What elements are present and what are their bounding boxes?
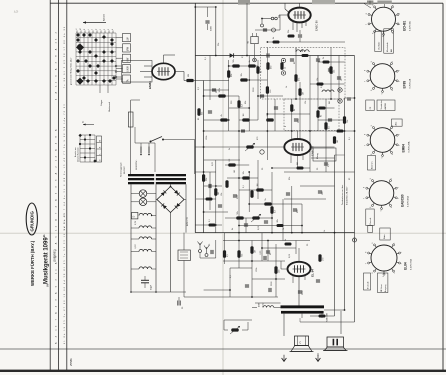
resistor R3 xyxy=(266,62,272,70)
value label v21 xyxy=(283,228,285,230)
value label v31 xyxy=(349,177,351,180)
value label v9 xyxy=(206,136,208,140)
svg-text:2M: 2M xyxy=(297,162,299,165)
capacitor C34 xyxy=(298,30,302,42)
terminal node T1 xyxy=(261,19,264,28)
socket EF89 diagram xyxy=(365,61,401,94)
wire V x239 xyxy=(238,96,240,160)
junction dots AF xyxy=(238,171,303,233)
svg-text:7: 7 xyxy=(365,145,367,146)
svg-text:25k: 25k xyxy=(289,177,291,180)
capacitor C23 xyxy=(260,250,266,260)
aux table top arrow xyxy=(83,121,95,126)
socket EABC80 label xyxy=(401,194,410,207)
resistor R41 xyxy=(285,239,292,246)
svg-text:C: C xyxy=(299,341,301,345)
speaker LS2 cone xyxy=(323,347,348,351)
socket EL84 tag 2 xyxy=(378,273,388,293)
wire H y84 xyxy=(310,83,345,85)
resistor R32 xyxy=(264,198,272,205)
resistor R13 xyxy=(227,70,233,78)
sheet number text xyxy=(69,358,73,366)
wire V x331 xyxy=(330,48,332,100)
triode pin wires xyxy=(291,131,303,168)
resistor R46 xyxy=(273,37,280,44)
EM84 pin stubs xyxy=(115,65,121,78)
EM84 label xyxy=(148,81,152,89)
capacitor C17 xyxy=(218,205,222,207)
value label v12 xyxy=(285,125,287,127)
svg-text:4: 4 xyxy=(392,154,394,155)
socket EF89 tag 1 xyxy=(366,100,374,111)
value label v30 xyxy=(329,101,331,104)
svg-text:8: 8 xyxy=(366,13,368,14)
svg-text:4: 4 xyxy=(112,29,114,30)
wire H y322 xyxy=(300,318,355,322)
bridge diode D4 xyxy=(161,191,167,197)
wire H y290 xyxy=(204,289,230,291)
EABC80 tube envelope xyxy=(288,8,310,23)
hum pot box xyxy=(178,250,190,261)
svg-text:7: 7 xyxy=(364,198,366,199)
plug riser wires xyxy=(135,127,155,172)
capacitor C8 xyxy=(260,95,264,97)
GRUNDIG logo oval xyxy=(26,203,37,235)
svg-text:8: 8 xyxy=(364,187,366,188)
capacitor C31 xyxy=(244,224,248,226)
svg-text:Zeiger: Zeiger xyxy=(100,100,103,106)
EL84 label xyxy=(311,269,315,277)
output transformer secondary bar xyxy=(281,311,324,314)
svg-text:1: 1 xyxy=(394,243,396,244)
horizontal fold crease xyxy=(0,232,446,234)
svg-text:Tonabnehmer nur über: Tonabnehmer nur über xyxy=(342,184,344,205)
svg-text:30k: 30k xyxy=(241,73,243,76)
svg-text:Abstimm: Abstimm xyxy=(371,161,374,169)
svg-text:7: 7 xyxy=(366,24,368,25)
heater winding w3 xyxy=(131,237,156,239)
value label v26 xyxy=(289,253,291,258)
svg-text:GRUNDIG: GRUNDIG xyxy=(29,211,34,232)
svg-text:Ansicht von: Ansicht von xyxy=(74,147,77,157)
wire V x335 xyxy=(334,155,336,316)
EM84 grid wires xyxy=(140,66,152,77)
aerial symbol A1 xyxy=(198,242,203,253)
transformer code text xyxy=(327,312,329,322)
svg-text:6: 6 xyxy=(372,33,374,34)
left margin rule 2 xyxy=(58,0,60,370)
value label v22 xyxy=(209,243,211,246)
resistor R29 xyxy=(228,158,236,167)
junction dots AF2 xyxy=(229,240,277,298)
wire H y303 xyxy=(255,302,281,304)
bridge side wires xyxy=(156,184,186,232)
capacitor C12 xyxy=(328,119,332,121)
svg-text:10k: 10k xyxy=(243,171,245,174)
svg-text:6k: 6k xyxy=(273,37,275,39)
mains fuse F1 xyxy=(128,112,133,127)
svg-text:Demod.: Demod. xyxy=(370,217,372,224)
svg-text:8: 8 xyxy=(365,70,367,71)
svg-text:Antrieb: Antrieb xyxy=(103,13,106,21)
socket EM84 label xyxy=(402,141,411,152)
resistor R20 xyxy=(324,122,330,130)
svg-text:3: 3 xyxy=(108,29,110,30)
svg-text:1M: 1M xyxy=(218,192,220,195)
left margin rule 3 xyxy=(66,0,68,370)
capacitor C9 xyxy=(274,107,278,109)
switch wire xyxy=(163,140,195,175)
wire H y120b xyxy=(318,119,345,121)
resistor R52 xyxy=(288,30,295,38)
capacitor C25 xyxy=(269,288,271,292)
svg-text:2M: 2M xyxy=(329,101,331,104)
svg-text:6: 6 xyxy=(371,90,373,91)
vertical wire W3 xyxy=(246,3,248,56)
wire V x224c xyxy=(224,233,226,264)
capacitor C26 xyxy=(298,290,304,295)
socket EL84 top tag 2 xyxy=(380,228,390,240)
wire aerial xyxy=(200,240,216,258)
svg-text:EM84: EM84 xyxy=(148,81,152,89)
value label v23 xyxy=(230,274,232,278)
svg-text:6,3V: 6,3V xyxy=(135,220,137,225)
svg-text:1M: 1M xyxy=(255,250,257,253)
svg-text:Skalenseil: Skalenseil xyxy=(109,102,111,112)
svg-text:50µF: 50µF xyxy=(151,284,153,290)
resistor R14 xyxy=(237,100,243,108)
EABC80 triode label xyxy=(311,145,315,156)
wire V x239c xyxy=(238,233,240,268)
wire V x310 xyxy=(309,56,311,173)
wire V x229 xyxy=(228,60,230,131)
svg-text:8: 8 xyxy=(365,134,367,135)
socket ECH81 diagram xyxy=(366,5,401,38)
resistor R35 xyxy=(250,190,253,198)
wire H y96 xyxy=(204,95,283,97)
junction dots volume xyxy=(203,171,217,226)
socket ECH81 top tags xyxy=(367,1,392,5)
heater winding w2 xyxy=(131,220,156,228)
capacitor C7 xyxy=(212,89,218,93)
fuse wire bottom xyxy=(130,127,132,174)
switch chart wafer labels xyxy=(116,34,131,84)
resistor R25 xyxy=(202,174,208,182)
wire V x355 xyxy=(354,56,356,323)
resistor R50 xyxy=(317,78,324,86)
svg-text:100k: 100k xyxy=(206,136,208,140)
coil L1 xyxy=(296,48,309,52)
value label v4 xyxy=(253,87,255,92)
wire V x283 xyxy=(282,199,284,241)
vertical fold crease xyxy=(222,0,224,375)
svg-text:2: 2 xyxy=(399,13,401,14)
filter cap C29 xyxy=(178,297,184,309)
wire H y114 xyxy=(267,113,310,115)
value label v27 xyxy=(307,243,309,246)
feedback wire xyxy=(310,315,335,317)
svg-text:D: D xyxy=(133,216,136,218)
wire H y225 xyxy=(195,224,222,226)
svg-text:gezeichnete Stellg. Taste „Aus: gezeichnete Stellg. Taste „Aus“ xyxy=(70,57,73,85)
svg-text:A 4 13 7 A 4 9 A 6 3 11 A 8 2: A 4 13 7 A 4 9 A 6 3 11 A 8 2 A 5 12 A 7… xyxy=(55,127,58,344)
wire V x272 xyxy=(271,172,273,233)
svg-text:7: 7 xyxy=(366,263,368,264)
wire V x292b xyxy=(291,186,293,233)
svg-text:5k: 5k xyxy=(229,148,231,150)
rectifier label xyxy=(187,216,189,226)
capacitor C19 xyxy=(264,221,268,223)
screen rail vertical xyxy=(215,7,217,56)
svg-text:41 8b 19 55 3c 27 90 12 66 4d: 41 8b 19 55 3c 27 90 12 66 4d 38 81 25 7… xyxy=(64,212,66,344)
wire V x216b xyxy=(215,160,217,233)
wire EM84 anode xyxy=(175,72,186,81)
junction dots extra xyxy=(203,41,356,311)
svg-text:Endstufe: Endstufe xyxy=(367,282,370,289)
capacitor C27 xyxy=(316,280,320,282)
svg-text:6,3V: 6,3V xyxy=(135,244,137,249)
svg-text:3k: 3k xyxy=(323,57,325,59)
capacitor C10 xyxy=(294,118,300,123)
svg-text:2: 2 xyxy=(398,70,400,71)
svg-text:5k: 5k xyxy=(265,198,267,200)
wire H y178 xyxy=(227,177,258,179)
capacitor C22 xyxy=(211,250,213,254)
value label v33 xyxy=(198,117,200,120)
resistor R15 xyxy=(256,66,262,74)
svg-text:4: 4 xyxy=(391,207,393,208)
heater return wire xyxy=(130,291,186,293)
terminal T5 xyxy=(353,238,357,242)
wire H y165 xyxy=(225,164,249,166)
svg-text:2k: 2k xyxy=(232,228,234,230)
resistor R17 xyxy=(290,104,296,112)
model number text xyxy=(53,249,57,262)
svg-text:1: 1 xyxy=(392,61,394,62)
wire H y212 xyxy=(204,211,228,213)
potentiometer P1 xyxy=(245,143,255,151)
svg-text:6,3V/0,28A: 6,3V/0,28A xyxy=(408,141,411,152)
value label v20 xyxy=(258,225,260,230)
svg-text:B250 C75: B250 C75 xyxy=(187,216,189,226)
trimmer T2 xyxy=(260,150,264,154)
wire V x339 xyxy=(338,56,340,100)
svg-text:8k: 8k xyxy=(321,115,323,117)
speaker LS2 capacitor xyxy=(327,337,344,347)
wire H y268 xyxy=(230,267,252,269)
svg-text:5: 5 xyxy=(383,276,385,277)
value label v32 xyxy=(198,86,200,90)
capacitor C11 xyxy=(241,130,245,132)
value label v14 xyxy=(234,170,236,173)
wire V x239b xyxy=(238,160,240,233)
bridge diode D2 xyxy=(175,203,181,209)
EABC80 pin wires xyxy=(293,21,306,32)
value label v34 xyxy=(245,101,247,104)
aux switch table marks xyxy=(79,134,97,163)
svg-text:9: 9 xyxy=(370,178,372,179)
value label v18 xyxy=(243,184,245,188)
svg-text:EL84: EL84 xyxy=(404,262,408,270)
switch chart contact marks xyxy=(76,33,116,85)
value label v2 xyxy=(218,43,220,46)
svg-text:2558b: 2558b xyxy=(69,358,73,366)
value label v35 xyxy=(317,167,319,170)
resistor R9 xyxy=(240,73,248,81)
svg-text:9: 9 xyxy=(372,243,374,244)
svg-text:2M: 2M xyxy=(302,49,304,52)
capacitor C6 xyxy=(328,69,334,74)
GRUNDIG logo text xyxy=(29,211,34,232)
resistor R39 xyxy=(250,246,256,254)
resistor R43 xyxy=(319,311,326,318)
coil L2 xyxy=(322,90,334,92)
junction dots mixer xyxy=(203,65,311,148)
ground arrow G2 xyxy=(316,355,321,362)
resistor R37 xyxy=(223,250,229,258)
capacitor C30 xyxy=(337,77,343,81)
chart lower leader lines xyxy=(100,85,108,93)
svg-text:Tastenaggregat: Tastenaggregat xyxy=(120,162,123,177)
EABC80 grid lead xyxy=(279,15,288,18)
svg-text:9: 9 xyxy=(372,5,374,6)
right border line xyxy=(442,3,444,370)
svg-text:1k: 1k xyxy=(285,67,287,69)
pilot lamp LP1 xyxy=(131,190,156,198)
svg-text:7c 24 91 5 63 38 17 80 4b 26: 7c 24 91 5 63 38 17 80 4b 26 xyxy=(64,26,66,88)
keyboard unit caption xyxy=(120,162,126,177)
resistor R12 xyxy=(266,112,274,121)
svg-text:EABC80: EABC80 xyxy=(311,145,315,156)
socket EM84 diagram xyxy=(365,125,401,158)
svg-text:6: 6 xyxy=(371,154,373,155)
wire H y62 xyxy=(318,61,345,63)
wire H y204 xyxy=(249,203,302,205)
svg-text:EABC80: EABC80 xyxy=(401,194,405,207)
potentiometer P2 xyxy=(251,214,261,222)
wire H y218 xyxy=(225,217,272,219)
wire V x204 xyxy=(203,81,205,233)
wire H y186c xyxy=(204,185,222,187)
socket EL84 tag 1 xyxy=(364,273,371,290)
value label v13 xyxy=(212,161,214,166)
svg-text:5k: 5k xyxy=(261,71,263,73)
aux switch table grid xyxy=(80,135,95,162)
transformer tap wires xyxy=(284,310,345,336)
socket ECH81 label xyxy=(403,20,412,31)
bridge bottom wire xyxy=(170,213,172,293)
resistor R47 xyxy=(297,162,304,170)
svg-text:1k: 1k xyxy=(285,239,287,241)
wire V x249 xyxy=(248,56,250,132)
svg-text:60k: 60k xyxy=(202,112,204,115)
socket EF89 label xyxy=(403,78,412,88)
trim terminal A xyxy=(281,58,285,62)
value label v17 xyxy=(221,193,223,196)
value label v15 xyxy=(262,167,264,170)
pilot lamp LP2 xyxy=(131,198,156,206)
svg-text:100k: 100k xyxy=(219,88,221,92)
mains switch S1 xyxy=(150,137,165,143)
svg-text:4: 4 xyxy=(392,90,394,91)
wire H y172 xyxy=(284,171,355,173)
svg-text:EABC 80: EABC 80 xyxy=(315,20,319,31)
svg-text:1M: 1M xyxy=(257,183,259,186)
svg-text:30k: 30k xyxy=(206,178,208,181)
svg-text:1k: 1k xyxy=(324,230,326,232)
drive arrow line xyxy=(83,21,106,23)
svg-text:15k: 15k xyxy=(317,78,319,81)
wire H y158 xyxy=(311,157,335,159)
resistor R30 xyxy=(242,171,250,179)
svg-text:Anz.: Anz. xyxy=(395,121,398,126)
svg-text:EM84: EM84 xyxy=(402,144,406,153)
wire H y147 xyxy=(195,146,284,148)
EL84 grid lead xyxy=(281,261,288,269)
speaker wires xyxy=(318,347,341,356)
resistor R34 xyxy=(225,180,228,188)
output coupling wires xyxy=(335,97,356,155)
wire V x275 xyxy=(274,99,276,131)
wire H y199c xyxy=(196,198,216,200)
svg-text:„Musikgerät 1099“: „Musikgerät 1099“ xyxy=(44,234,50,287)
svg-text:1M: 1M xyxy=(303,92,305,95)
svg-text:1M: 1M xyxy=(188,74,190,77)
svg-text:1k: 1k xyxy=(249,60,251,62)
EABC80 triode envelope xyxy=(284,139,310,155)
resistor R36 xyxy=(270,206,276,214)
socket EF89 tag 2 xyxy=(377,100,395,111)
pencil note xyxy=(13,9,18,14)
svg-text:9: 9 xyxy=(371,125,373,126)
svg-text:(1088/561): (1088/561) xyxy=(53,249,57,262)
resistor R49 xyxy=(323,57,330,64)
svg-text:3: 3 xyxy=(401,263,403,264)
wire H y248 xyxy=(262,247,296,249)
svg-text:6,3V/0,3A: 6,3V/0,3A xyxy=(409,21,412,31)
wire V x258b xyxy=(257,160,259,199)
resistor R4 xyxy=(280,62,286,70)
terminal T4 xyxy=(338,99,342,103)
socket EABC80 tag 1 xyxy=(366,209,374,226)
wire H y66 xyxy=(229,65,258,67)
trim terminal B xyxy=(281,71,285,75)
capacitor C20 xyxy=(293,209,299,213)
svg-text:2: 2 xyxy=(397,187,399,188)
svg-text:10k: 10k xyxy=(221,193,223,196)
svg-text:70k: 70k xyxy=(347,120,349,123)
socket ECH81 lead xyxy=(364,1,385,9)
wire H y186b xyxy=(300,185,335,187)
resistor R11 xyxy=(242,113,250,121)
power transformer core bar 2 xyxy=(128,178,186,180)
resistor R44 xyxy=(294,74,300,82)
pushbutton switch chart grid xyxy=(76,33,116,85)
main bus y232 xyxy=(195,232,354,234)
resistor R42 xyxy=(318,254,324,262)
wire H y168 xyxy=(272,167,310,169)
wire H y261 xyxy=(223,260,285,262)
resistor R6 xyxy=(218,88,226,97)
EL84 pin wires xyxy=(293,248,305,306)
svg-text:7: 7 xyxy=(365,81,367,82)
value label v7 xyxy=(305,101,307,104)
margin note text xyxy=(342,184,349,205)
resistor R45 xyxy=(329,66,335,74)
terminal T3 xyxy=(338,88,342,92)
svg-text:4x: 4x xyxy=(83,121,85,123)
wire H y240 xyxy=(223,240,310,242)
